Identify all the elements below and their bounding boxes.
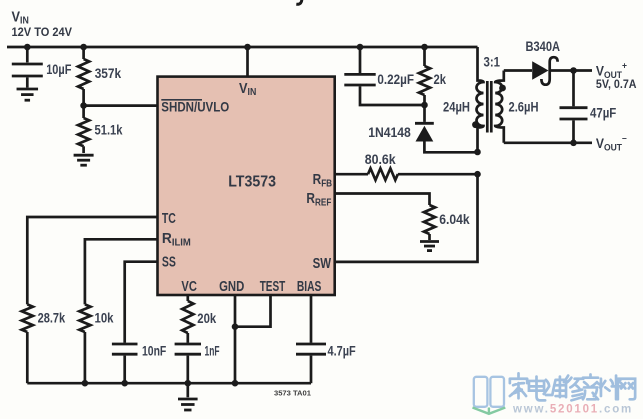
capacitor 10uF input	[26, 47, 29, 62]
svg-text:VOUT–: VOUT–	[596, 133, 627, 153]
svg-text:10k: 10k	[95, 310, 114, 326]
wire RILIM	[85, 239, 158, 304]
ground input cap	[17, 88, 39, 91]
wire GND pin	[234, 295, 237, 383]
svg-text:LT3573: LT3573	[228, 174, 276, 191]
node junction snubber RC	[421, 102, 428, 109]
svg-text:20k: 20k	[197, 310, 216, 326]
svg-text:B340A: B340A	[526, 38, 561, 54]
wire SS	[125, 262, 158, 343]
ground main rail	[186, 383, 189, 397]
svg-text:TC: TC	[162, 211, 176, 227]
svg-text:SW: SW	[313, 256, 332, 272]
wire VOUT-	[504, 141, 592, 144]
wire BIAS pin	[310, 295, 313, 343]
svg-text:3:1: 3:1	[484, 54, 501, 70]
resistor 357k	[82, 47, 85, 59]
resistor 10k	[79, 304, 90, 332]
wire bottom ground rail	[27, 382, 311, 385]
svg-text:www.520101.com: www.520101.com	[512, 404, 633, 416]
resistor 2k snubber	[423, 47, 426, 66]
svg-text:10nF: 10nF	[142, 343, 167, 359]
wire TC	[27, 217, 157, 304]
wire VC	[186, 295, 189, 301]
svg-text:24µH: 24µH	[443, 99, 470, 115]
node junction VOUT-/cap	[570, 140, 577, 147]
capacitor 4.7uF	[296, 343, 326, 346]
node junction RFB/SW	[474, 171, 481, 178]
diode 1N4148	[423, 105, 426, 122]
capacitor 0.22uF snubber	[359, 47, 362, 73]
svg-text:357k: 357k	[95, 65, 122, 81]
svg-text:0.22µF: 0.22µF	[377, 71, 414, 87]
resistor 80.6k	[368, 168, 398, 180]
node junction TEST/GND	[232, 323, 239, 330]
svg-text:2k: 2k	[434, 71, 447, 87]
resistor 6.04k	[424, 205, 435, 234]
svg-text:2.6µH: 2.6µH	[509, 99, 539, 115]
node junction snubber/SW	[474, 149, 481, 156]
wire RFB	[335, 173, 368, 176]
transformer secondary 2.6uH winding	[495, 71, 504, 143]
node junction VIN/10uF	[24, 44, 31, 51]
capacitor 10nF	[112, 343, 138, 346]
svg-text:51.1k: 51.1k	[95, 122, 123, 138]
wire SW	[335, 174, 478, 262]
node junction 0.22uF/rail	[357, 44, 364, 51]
transformer phase dot secondary	[499, 85, 506, 92]
watermark book icon	[474, 377, 504, 407]
transformer core	[486, 81, 489, 133]
wire SHDN/UVLO to divider	[84, 104, 158, 107]
wire RREF	[335, 194, 430, 206]
diode B340A	[532, 61, 548, 80]
node junction VIN pin	[244, 44, 251, 51]
svg-text:47µF: 47µF	[590, 105, 617, 121]
wire secondary to diode	[504, 69, 532, 72]
ground 51.1k	[74, 154, 94, 157]
transformer primary 24uH winding	[477, 47, 484, 152]
svg-text:VIN: VIN	[12, 9, 29, 26]
svg-text:6.04k: 6.04k	[439, 211, 470, 227]
svg-text:1N4148: 1N4148	[368, 124, 411, 140]
svg-text:80.6k: 80.6k	[365, 151, 396, 167]
capacitor 47uF	[572, 71, 575, 107]
svg-text:VC: VC	[181, 279, 197, 295]
resistor 51.1k	[82, 106, 85, 118]
node junction VIN/357k	[80, 44, 87, 51]
node junction VC/rail	[185, 380, 192, 387]
svg-text:5V, 0.7A: 5V, 0.7A	[596, 77, 637, 91]
node junction output cap	[570, 67, 577, 74]
resistor 28.7k	[22, 304, 33, 332]
wire TEST pin	[235, 295, 271, 327]
svg-text:10µF: 10µF	[46, 61, 72, 77]
capacitor 1nF	[175, 343, 201, 346]
svg-text:28.7k: 28.7k	[38, 310, 66, 326]
svg-text:BIAS: BIAS	[297, 279, 322, 295]
svg-text:SS: SS	[162, 254, 176, 270]
node junction 2k/rail	[421, 44, 428, 51]
watermark site name characters	[510, 373, 635, 400]
IC U1 LT3573 body	[158, 77, 335, 295]
resistor 20k	[182, 301, 193, 333]
svg-text:TEST: TEST	[260, 279, 286, 295]
svg-text:1nF: 1nF	[205, 343, 220, 359]
svg-text:GND: GND	[219, 279, 244, 295]
node junction 10nF/rail	[121, 380, 128, 387]
wire top VIN rail	[7, 46, 478, 49]
svg-text:12V TO 24V: 12V TO 24V	[12, 25, 73, 39]
node junction GND/rail	[232, 380, 239, 387]
svg-text:SHDN/UVLO: SHDN/UVLO	[161, 100, 229, 115]
partial cropped letter y	[296, 0, 302, 4]
ground 6.04k	[420, 240, 439, 243]
svg-text:4.7µF: 4.7µF	[328, 343, 357, 359]
svg-text:3573 TA01: 3573 TA01	[274, 389, 312, 398]
node junction 10k/rail	[82, 380, 89, 387]
node junction 357k/51.1k	[80, 102, 87, 109]
transformer phase dot primary	[472, 121, 479, 128]
pin VIN	[246, 47, 249, 77]
